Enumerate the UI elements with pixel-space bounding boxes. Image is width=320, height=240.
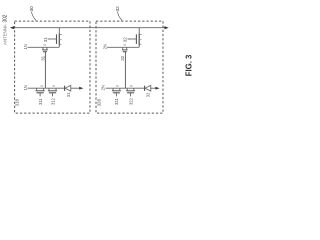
pin label above M2 [40,85,44,87]
svg-text:0: 0 [43,44,47,46]
transistor M4 (box 320 top) [129,28,142,46]
label 320 [115,6,122,21]
label 312 (M3) [50,97,55,105]
wire vertical (M7 gate lead down to bottom wire, box 310) [44,52,46,88]
label 321 (M5) [114,97,119,105]
transistor M3 (box 310 bottom right) [48,88,57,96]
label 328 (box 320 inner bottom-left) [96,99,101,107]
transistor M1 (box 310 top) [49,28,62,46]
label 322 (M6) [128,97,133,105]
label 316 (M7) [40,55,45,60]
svg-text:328: 328 [96,99,101,107]
svg-text:31: 31 [40,55,45,60]
node IN2 label (box 320 bottom wire left terminal) [100,85,105,90]
pin label above M6 [130,85,134,87]
arrow right end of box 310 bottom wire [79,87,83,90]
svg-text:311: 311 [38,98,43,105]
svg-text:32: 32 [115,6,120,12]
label 326 (M8) [120,55,125,60]
box 320 (right dashed module) [96,21,163,113]
node RX2 label (box 320 mid wire left terminal) [102,44,107,49]
label 310 [29,6,36,21]
svg-text:2N: 2N [102,44,107,49]
svg-text:0: 0 [52,85,56,87]
svg-text:31: 31 [66,92,71,97]
wire source jog (box 320) [107,45,139,48]
diode D2 (box 320) [145,85,151,91]
svg-text:0: 0 [40,85,44,87]
svg-text:30: 30 [29,6,34,12]
label 313 (D1) [66,92,71,97]
transistor M2 (box 310 bottom left) [36,88,45,96]
svg-text:322: 322 [128,97,133,105]
transistor M7 (box 310 middle, hanging under jog wire) [42,47,48,52]
svg-text:32: 32 [123,37,128,42]
diode D1 (box 310) [65,85,71,91]
svg-text:32: 32 [146,92,151,97]
wire vertical (M8 gate lead down to bottom wire, box 320) [124,52,126,88]
transistor M8 (box 320 middle, hanging under jog wire) [122,47,128,52]
node IN1 label (box 310 bottom wire left terminal) [23,85,28,90]
svg-text:0: 0 [116,85,120,87]
svg-text:302: 302 [2,14,8,22]
label 324 (gate of M4) [123,37,130,42]
svg-text:32: 32 [120,55,125,60]
svg-text:2N: 2N [100,85,105,90]
node ANT label (rotated, left edge) [2,14,8,45]
wire bus (top horizontal line) [12,27,168,29]
svg-text:0: 0 [123,44,127,46]
label 314 (gate of M1) [43,37,50,42]
pin label above M5 [116,85,120,87]
arrow right end of bus [164,26,168,29]
pin label above M8 [123,44,127,46]
box 310 (left dashed module) [15,21,90,113]
svg-text:FIG. 3: FIG. 3 [184,54,193,76]
svg-text:1N: 1N [23,85,28,90]
FIG. 3 caption [184,54,193,76]
transistor M6 (box 320 bottom right) [126,88,135,96]
svg-text:ANTENNA: ANTENNA [2,23,7,45]
label 323 (D2) [146,92,151,97]
label 311 (M2) [38,98,43,105]
arrow left end of bus [10,26,14,29]
svg-text:312: 312 [50,97,55,105]
transistor M5 (box 320 bottom left) [112,88,121,96]
arrow right end of box 320 bottom wire [155,87,159,90]
svg-text:321: 321 [114,97,119,105]
pin label above M7 [43,44,47,46]
svg-text:318: 318 [15,99,20,107]
wire bottom (box 310) [28,87,81,89]
wire bottom (box 320) [106,87,157,89]
label 318 (box 310 inner bottom-left) [15,99,20,107]
svg-text:1N: 1N [23,44,28,49]
svg-text:31: 31 [43,37,48,42]
node RX1 label (box 310 mid wire left terminal) [23,44,28,49]
wire source jog (box 310) [28,45,60,48]
svg-text:0: 0 [130,85,134,87]
pin label above M3 [52,85,56,87]
